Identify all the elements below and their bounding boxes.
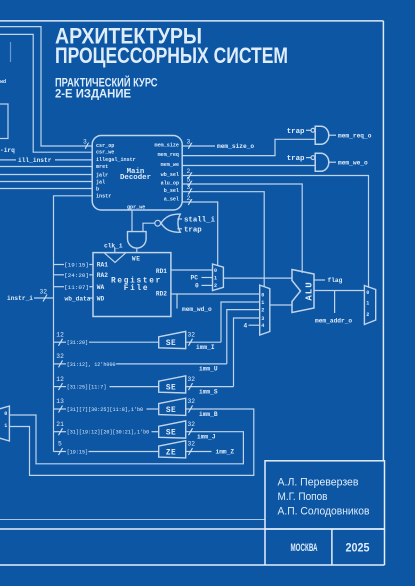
- imm row S: [54, 386, 67, 388]
- width slash wb_sel 2: [188, 173, 191, 179]
- svg-text:mem_size: mem_size: [155, 142, 179, 148]
- width slash imm rows inputs: [59, 339, 63, 346]
- svg-text:RD2: RD2: [156, 291, 167, 298]
- svg-text:5: 5: [58, 441, 62, 448]
- svg-text:0: 0: [195, 283, 199, 290]
- svg-text:2-Е ИЗДАНИЕ: 2-Е ИЗДАНИЕ: [55, 86, 131, 100]
- and gate U4 WE: [128, 232, 147, 249]
- frame top line: [0, 20, 383, 22]
- svg-text:RD1: RD1: [156, 268, 167, 275]
- svg-text:32: 32: [188, 421, 196, 428]
- wire b: [0, 188, 92, 190]
- svg-text:imm_Z: imm_Z: [216, 449, 235, 456]
- svg-text:WE: WE: [132, 255, 141, 262]
- wire mem_we to gate: [182, 165, 315, 167]
- wire imm_S out: [186, 386, 234, 388]
- wire csr_op from page edge: [0, 27, 92, 146]
- svg-text:21: 21: [56, 421, 64, 428]
- wire stall_i stub: [177, 218, 182, 220]
- SE block imm_S: [159, 376, 186, 393]
- svg-text:mem_wd_o: mem_wd_o: [182, 306, 212, 313]
- svg-text:csr_we: csr_we: [96, 150, 114, 156]
- wire imm_J loop to left mux in0: [9, 415, 243, 464]
- svg-text:gpr_we: gpr_we: [127, 205, 145, 211]
- svg-text:a_sel: a_sel: [164, 197, 179, 203]
- svg-text:b: b: [96, 187, 99, 193]
- wire mem_req_o out: [329, 134, 336, 136]
- svg-text:csr_op: csr_op: [96, 143, 114, 149]
- wire trap to U2: [306, 157, 311, 159]
- frame right line: [382, 21, 384, 461]
- stub [19:15] to RA1: [54, 264, 65, 266]
- wire RD1 to a mux: [171, 269, 213, 271]
- b_sel mux M2: [260, 285, 270, 335]
- and gate U2 mem_we_o: [315, 153, 329, 171]
- wire trap stub: [177, 228, 182, 230]
- SE block imm_J: [159, 421, 186, 438]
- wire jalr: [0, 174, 92, 176]
- svg-text:ZE: ZE: [166, 450, 176, 458]
- svg-text:[31:12], 12'h000: [31:12], 12'h000: [67, 362, 116, 368]
- svg-text:ПРОЦЕССОРНЫХ СИСТЕМ: ПРОЦЕССОРНЫХ СИСТЕМ: [55, 43, 288, 68]
- wire csr_we from page edge: [0, 34, 92, 152]
- imm row I: stub+wire: [54, 341, 67, 343]
- wire mem_size_o: [182, 145, 215, 147]
- svg-text:0: 0: [4, 411, 7, 417]
- svg-text:ill_instr: ill_instr: [18, 157, 52, 164]
- wire illegal_instr cont: [55, 159, 92, 161]
- wire flag out: [314, 279, 325, 281]
- svg-text:[31][7][30:25][11:8],1'b0: [31][7][30:25][11:8],1'b0: [67, 407, 143, 413]
- svg-text:RA2: RA2: [97, 272, 108, 279]
- svg-text:2,: 2,: [187, 168, 195, 175]
- svg-text:[11:07]: [11:07]: [64, 284, 89, 291]
- svg-text:stall_i: stall_i: [184, 217, 216, 225]
- svg-text:imm_J: imm_J: [197, 433, 216, 440]
- svg-text:illegal_instr: illegal_instr: [96, 157, 136, 163]
- wire instr + instr bus: [54, 196, 93, 452]
- wire b_sel select: [182, 192, 264, 287]
- svg-text:wb_data: wb_data: [65, 295, 91, 302]
- svg-text:instr_i: instr_i: [7, 295, 33, 302]
- wire alu_op select: [182, 184, 302, 273]
- svg-text:SE: SE: [166, 385, 176, 393]
- svg-text:3,: 3,: [187, 184, 195, 191]
- wire mret: [0, 166, 92, 168]
- width slash alu_op 5: [188, 181, 191, 187]
- svg-text:wb_sel: wb_sel: [161, 172, 179, 178]
- cut block edge stub: [10, 42, 12, 62]
- a_sel mux M1: [213, 264, 224, 291]
- left pc-target mux M4 (cut at page edge): [0, 406, 9, 441]
- wire U3 out to and gate U4: [143, 223, 155, 231]
- svg-text:jal: jal: [96, 180, 105, 186]
- wire imm_Z out: [186, 451, 212, 453]
- svg-text:clk_i: clk_i: [104, 243, 123, 250]
- svg-text:mret: mret: [96, 164, 108, 170]
- wire mem_req to gate: [182, 139, 315, 155]
- width slash mem_size 3: [188, 143, 191, 149]
- svg-text:А.Л. Переверзев: А.Л. Переверзев: [278, 477, 359, 489]
- svg-text:12: 12: [56, 331, 64, 338]
- wire RD2 to b mux: [171, 293, 260, 295]
- cut block box (left edge of page): [0, 104, 8, 139]
- ZE block imm_Z: [159, 441, 186, 458]
- svg-text:1: 1: [214, 276, 217, 282]
- svg-text:PC: PC: [191, 275, 199, 282]
- svg-text:[24:20]: [24:20]: [64, 272, 89, 279]
- svg-text:trap: trap: [287, 155, 305, 163]
- bubble on trap input U1: [311, 128, 315, 132]
- wire mem_we_o out: [329, 161, 336, 163]
- nor gate U3 stall/trap: [161, 214, 180, 232]
- stub [24:20] to RA2: [54, 274, 65, 276]
- wb mux M3: [364, 286, 375, 325]
- bubble U3 output: [155, 220, 161, 226]
- register file box: [93, 253, 171, 317]
- svg-text:1: 1: [366, 300, 369, 306]
- svg-text:А.П. Солодовников: А.П. Солодовников: [278, 505, 370, 517]
- svg-text:[31][19:12][20][30:21],1'b0: [31][19:12][20][30:21],1'b0: [67, 430, 150, 436]
- wire instr_i: [34, 297, 54, 299]
- svg-text:2: 2: [366, 312, 369, 318]
- wire M2 out to ALU: [270, 304, 292, 306]
- svg-text:WA: WA: [97, 284, 105, 291]
- wire clk_i stub: [114, 248, 116, 253]
- width slash SE outputs 32: [189, 339, 193, 346]
- svg-text:SE: SE: [166, 430, 176, 438]
- wire const0 stub: [202, 284, 213, 286]
- wire jal: [0, 181, 92, 183]
- svg-text:File: File: [124, 285, 150, 293]
- svg-text:imm_S: imm_S: [199, 388, 218, 395]
- svg-text:wd: wd: [0, 79, 6, 85]
- width slash instr_i 32: [43, 295, 47, 302]
- svg-text:1: 1: [4, 423, 7, 429]
- main decoder U_DEC box: [92, 136, 182, 211]
- svg-text:b_sel: b_sel: [164, 188, 179, 194]
- svg-text:mem_size_o: mem_size_o: [217, 143, 254, 150]
- bubble on trap input U2: [311, 156, 315, 160]
- wire imm_I out: [186, 341, 221, 343]
- svg-text:RA1: RA1: [97, 262, 108, 269]
- svg-text:mem_addr_o: mem_addr_o: [315, 317, 352, 324]
- svg-text:SE: SE: [166, 340, 176, 348]
- wire ALU result: [314, 290, 364, 292]
- svg-text:instr: instr: [96, 194, 111, 200]
- svg-text:3,: 3,: [83, 139, 91, 146]
- svg-text:32: 32: [188, 376, 196, 383]
- title block band top line: [0, 528, 385, 530]
- and gate U1 mem_req_o: [315, 126, 329, 144]
- title block authors box: [265, 461, 385, 529]
- wire imm_U riser to M2.2: [227, 310, 260, 364]
- svg-text:flag: flag: [328, 277, 343, 284]
- svg-text:1: 1: [261, 300, 264, 306]
- svg-text:32: 32: [56, 353, 64, 360]
- svg-text:imm_U: imm_U: [199, 366, 218, 373]
- svg-text:4: 4: [244, 322, 248, 329]
- stub [11:07] to WA: [54, 286, 65, 288]
- imm row J: [54, 431, 67, 433]
- wire imm_S riser to M2.3: [234, 318, 260, 387]
- SE block imm_B: [159, 398, 186, 415]
- wire a_sel select: [182, 202, 218, 266]
- clk edge triangle: [104, 253, 126, 263]
- title block band bottom line: [0, 564, 385, 566]
- svg-text:mem_we_o: mem_we_o: [338, 159, 368, 166]
- title block band divider: [331, 529, 333, 565]
- wire wb_data return (behind title block): [0, 519, 265, 521]
- width slash a_sel 2: [188, 199, 191, 205]
- svg-text:32: 32: [188, 331, 196, 338]
- title block band right edge: [384, 529, 386, 565]
- svg-text:32: 32: [40, 289, 48, 296]
- svg-text:2,: 2,: [187, 195, 195, 202]
- svg-text:13: 13: [56, 398, 64, 405]
- svg-text:2025: 2025: [346, 542, 371, 554]
- ALU U5: [292, 270, 314, 313]
- wire wb_sel select: [182, 176, 368, 288]
- svg-text:[19:15]: [19:15]: [64, 262, 89, 269]
- svg-text:[19:15]: [19:15]: [67, 450, 88, 456]
- svg-text:mem_req: mem_req: [158, 152, 179, 158]
- svg-text:3: 3: [261, 316, 264, 322]
- width slash b_sel 3: [188, 189, 191, 195]
- wire gpr_we: [131, 210, 133, 232]
- svg-text:ALU: ALU: [305, 281, 315, 300]
- svg-text:trap: trap: [287, 128, 305, 136]
- svg-text:mem_we: mem_we: [161, 162, 179, 168]
- svg-text:jalr: jalr: [96, 173, 108, 179]
- wire trap to U1: [306, 129, 311, 131]
- wire illegal_instr: [0, 159, 16, 161]
- imm row U wire: [54, 363, 67, 365]
- svg-text:alu_op: alu_op: [161, 181, 179, 187]
- svg-text:SE: SE: [166, 407, 176, 415]
- svg-text:2: 2: [261, 308, 264, 314]
- svg-text:М.Г. Попов: М.Г. Попов: [278, 491, 328, 503]
- imm row B: [54, 408, 67, 410]
- svg-text:МОСКВА: МОСКВА: [291, 542, 318, 554]
- svg-text:32: 32: [188, 398, 196, 405]
- wire M1 out to ALU: [223, 277, 292, 279]
- svg-text:4: 4: [261, 323, 264, 329]
- svg-text:[31:20]: [31:20]: [67, 340, 88, 346]
- svg-text:imm_I: imm_I: [196, 344, 215, 351]
- wire mem_addr_o branch: [334, 291, 336, 314]
- svg-text:0: 0: [366, 290, 369, 296]
- width slash csr_op 3: [85, 143, 88, 149]
- svg-text:3,: 3,: [187, 139, 195, 146]
- svg-text:12: 12: [56, 376, 64, 383]
- SE block imm_I: [159, 331, 186, 348]
- wire const4 stub to M2.4: [249, 324, 260, 326]
- imm row Z: [54, 451, 67, 453]
- svg-text:Decoder: Decoder: [120, 174, 151, 182]
- svg-text:mem_req_o: mem_req_o: [338, 132, 372, 139]
- stub wb_data to WD: [89, 297, 94, 299]
- title block band left cell edge: [264, 529, 266, 565]
- svg-text:imm_B: imm_B: [199, 411, 218, 418]
- svg-text:0: 0: [261, 292, 264, 298]
- wire U4 out to WE: [136, 248, 138, 252]
- wire mem_wd_o branch: [176, 294, 178, 309]
- wire imm_I riser to M2.1: [221, 302, 260, 342]
- svg-text:[31:25][11:7]: [31:25][11:7]: [67, 385, 107, 391]
- svg-text:5,: 5,: [187, 176, 195, 183]
- wire PC stub: [202, 277, 213, 279]
- svg-text:32: 32: [188, 441, 196, 448]
- wire imm_B loop to left mux in1: [9, 409, 253, 475]
- svg-text:WD: WD: [97, 295, 105, 302]
- svg-text:trap: trap: [184, 226, 202, 234]
- svg-text:2: 2: [214, 283, 217, 289]
- svg-text:-irq: -irq: [0, 147, 15, 154]
- svg-text:Register: Register: [111, 277, 162, 285]
- svg-text:0: 0: [214, 268, 217, 274]
